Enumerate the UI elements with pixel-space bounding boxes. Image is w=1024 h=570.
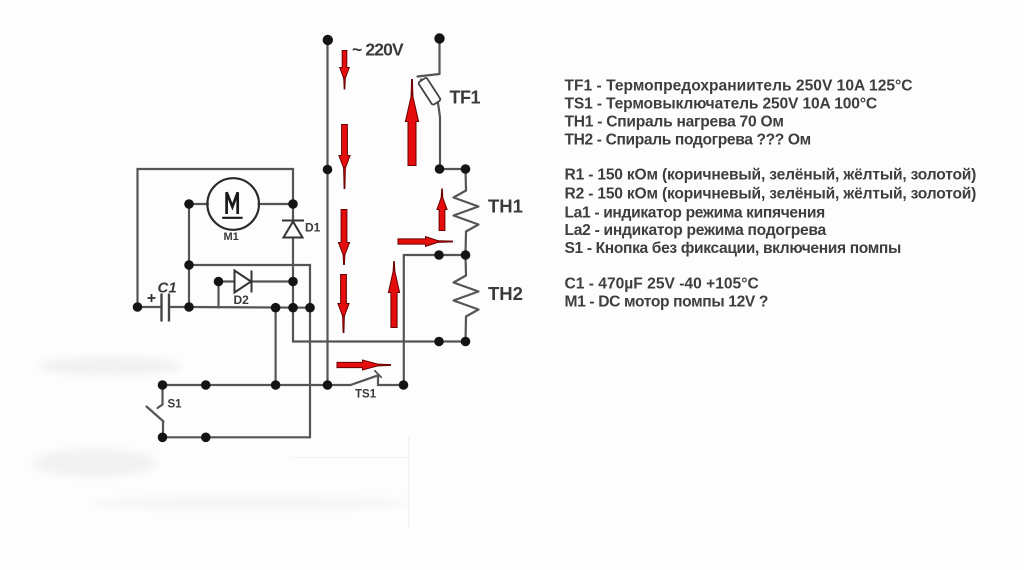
svg-text:La2 - индикатор режима подогре: La2 - индикатор режима подогрева: [565, 222, 827, 239]
svg-text:TF1 - Термопредохраниитель 250: TF1 - Термопредохраниитель 250V 10A 125°…: [565, 78, 913, 95]
svg-text:~ 220V: ~ 220V: [352, 40, 404, 60]
svg-text:S1: S1: [168, 399, 183, 411]
svg-text:La1 - индикатор режима кипячен: La1 - индикатор режима кипячения: [565, 205, 826, 222]
svg-text:M1: M1: [224, 231, 239, 243]
svg-text:TS1: TS1: [355, 389, 377, 401]
svg-text:C1 - 470µF 25V -40 +105°C: C1 - 470µF 25V -40 +105°C: [565, 276, 759, 293]
svg-text:TH2 - Спираль подогрева ??? Ом: TH2 - Спираль подогрева ??? Ом: [565, 132, 811, 149]
svg-text:TH2: TH2: [488, 283, 523, 304]
svg-text:TH1: TH1: [488, 196, 523, 217]
svg-text:D1: D1: [305, 221, 321, 235]
svg-text:M1 - DC мотор помпы 12V ?: M1 - DC мотор помпы 12V ?: [565, 294, 769, 311]
svg-text:R1 - 150 кОм (коричневый, зелё: R1 - 150 кОм (коричневый, зелёный, жёлты…: [565, 167, 977, 184]
svg-text:S1 - Кнопка без фиксации, вклю: S1 - Кнопка без фиксации, включения помп…: [565, 240, 901, 257]
svg-text:C1: C1: [158, 280, 177, 297]
svg-text:R2 - 150 кОм (коричневый, зелё: R2 - 150 кОм (коричневый, зелёный, жёлты…: [565, 186, 977, 203]
svg-text:D2: D2: [234, 293, 250, 307]
svg-text:TS1 - Термовыключатель 250V 10: TS1 - Термовыключатель 250V 10A 100°C: [565, 96, 878, 113]
svg-text:TF1: TF1: [450, 88, 481, 108]
svg-text:TH1 - Спираль нагрева 70 Ом: TH1 - Спираль нагрева 70 Ом: [565, 114, 784, 131]
